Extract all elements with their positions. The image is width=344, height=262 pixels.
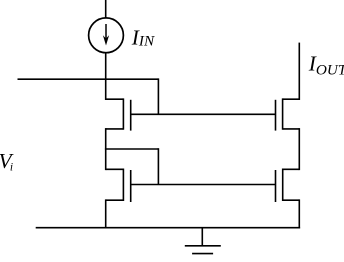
wire gate bus row2 (M2 gate to M4 gate) bbox=[131, 184, 276, 186]
wire top input node horizontal bbox=[18, 78, 159, 80]
ground bbox=[185, 228, 221, 254]
wire diode connection M1 vertical bbox=[157, 78, 159, 114]
wire ground rail horizontal bbox=[36, 227, 300, 229]
transistor M1 bbox=[106, 98, 131, 130]
wire top lead into current source bbox=[105, 0, 107, 19]
svg-text:IOUT: IOUT bbox=[308, 51, 344, 78]
wire link node horizontal bbox=[105, 148, 158, 150]
wire from current source to drain of M1 bbox=[105, 53, 107, 100]
transistor M3 bbox=[276, 98, 300, 130]
svg-text:IIN: IIN bbox=[131, 25, 155, 49]
current source I_IN bbox=[89, 18, 124, 53]
wire M4 source down to ground rail bbox=[298, 199, 300, 228]
wire gate bus row1 (M1 gate to M3 gate) bbox=[131, 113, 276, 115]
svg-text:Vi: Vi bbox=[0, 149, 15, 173]
wire M3 source to M4 drain bbox=[298, 128, 300, 170]
wire diode connection M2 vertical bbox=[157, 148, 159, 184]
wire output lead I_OUT bbox=[298, 43, 300, 100]
wire M1 source to M2 drain bbox=[105, 128, 107, 170]
transistor M2 bbox=[106, 169, 131, 203]
wire M2 source down to ground rail bbox=[105, 199, 107, 227]
transistor M4 bbox=[276, 169, 300, 203]
